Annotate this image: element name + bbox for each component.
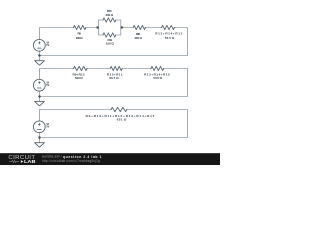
svg-text:66.7 Ω: 66.7 Ω xyxy=(109,76,119,80)
svg-text:200 Ω: 200 Ω xyxy=(105,13,113,17)
svg-text:54.5 Ω: 54.5 Ω xyxy=(165,36,175,40)
svg-text:54.5 Ω: 54.5 Ω xyxy=(153,76,162,80)
svg-text:5 V: 5 V xyxy=(46,83,49,87)
svg-text:500 Ω: 500 Ω xyxy=(75,76,83,80)
svg-text:LAB: LAB xyxy=(24,159,36,164)
svg-text:100 Ω: 100 Ω xyxy=(106,42,115,46)
svg-text:621 Ω: 621 Ω xyxy=(117,118,127,122)
svg-text:100 Ω: 100 Ω xyxy=(76,36,83,40)
svg-text:5 V: 5 V xyxy=(46,43,49,47)
svg-text:http://circuitlab.com/c/7mahbs: http://circuitlab.com/c/7mahbsg5cj2g xyxy=(42,159,100,163)
svg-text:400 Ω: 400 Ω xyxy=(134,36,142,40)
svg-text:5 V: 5 V xyxy=(46,125,49,129)
